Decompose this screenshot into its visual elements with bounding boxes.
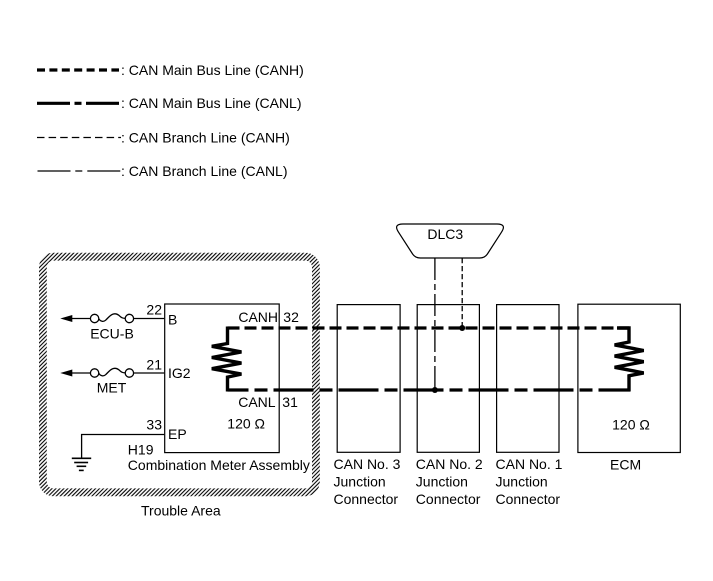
svg-text:Junction: Junction [334, 474, 386, 490]
junction node on CANL (dot) [432, 387, 438, 393]
svg-text:Connector: Connector [416, 491, 481, 507]
svg-text:: CAN Main Bus Line (CANL): : CAN Main Bus Line (CANL) [121, 95, 302, 111]
CANH main bus line [228, 326, 630, 329]
svg-text:B: B [168, 311, 177, 327]
svg-text:CAN No. 3: CAN No. 3 [334, 456, 401, 472]
svg-text:CAN No. 1: CAN No. 1 [496, 456, 563, 472]
svg-text:120 Ω: 120 Ω [612, 416, 650, 432]
svg-text:: CAN Main Bus Line (CANH): : CAN Main Bus Line (CANH) [121, 62, 304, 78]
arrow to MET [60, 370, 72, 377]
svg-text:H19: H19 [128, 442, 154, 458]
svg-text:DLC3: DLC3 [427, 226, 463, 242]
junction connector box CAN No.1 [497, 305, 559, 453]
combination meter assembly box [165, 304, 280, 453]
pin 22 wire row B [134, 318, 165, 320]
resistor 120ohm in ECM [615, 328, 644, 392]
DLC3 connector outline [397, 224, 504, 258]
svg-text:Connector: Connector [334, 491, 399, 507]
svg-text:ECM: ECM [610, 456, 641, 472]
svg-text:EP: EP [168, 426, 187, 442]
svg-text:33: 33 [146, 416, 162, 432]
CANL main bus line [228, 388, 631, 391]
svg-text:ECU-B: ECU-B [90, 326, 134, 342]
svg-text:: CAN Branch Line (CANL): : CAN Branch Line (CANL) [121, 163, 288, 179]
fuse MET squiggle [99, 368, 125, 376]
fuse ECU-B squiggle [99, 314, 125, 322]
CANH branch line from DLC3 [461, 258, 463, 328]
ground symbol [72, 458, 91, 470]
fuse ECU-B left circle [90, 314, 98, 322]
fuse MET left circle [90, 369, 98, 377]
svg-text:21: 21 [146, 356, 162, 372]
svg-text:: CAN Branch Line (CANH): : CAN Branch Line (CANH) [121, 129, 290, 145]
arrow to ECU-B [60, 315, 72, 322]
junction connector box CAN No.2 [417, 305, 479, 453]
legend sample: CAN Branch Line (CANL) thin long-short dash [38, 170, 122, 172]
fuse ECU-B right circle [125, 314, 133, 322]
svg-text:MET: MET [97, 380, 127, 396]
svg-text:Combination Meter Assembly: Combination Meter Assembly [128, 457, 310, 473]
svg-text:120 Ω: 120 Ω [227, 416, 265, 432]
svg-text:IG2: IG2 [168, 365, 191, 381]
legend sample: CAN Main Bus Line (CANL) thick dash-dot [37, 102, 120, 105]
legend sample: CAN Branch Line (CANH) thin dashed [37, 137, 121, 139]
fuse MET right circle [125, 369, 133, 377]
svg-text:32: 32 [283, 309, 299, 325]
svg-text:22: 22 [146, 302, 162, 318]
svg-text:Junction: Junction [416, 474, 468, 490]
svg-text:CAN No. 2: CAN No. 2 [416, 456, 483, 472]
svg-text:Connector: Connector [496, 491, 561, 507]
junction connector box CAN No.3 [337, 305, 400, 453]
junction node on CANH (dot) [459, 325, 465, 331]
svg-text:Junction: Junction [496, 474, 548, 490]
svg-text:CANH: CANH [238, 309, 278, 325]
pin 21 wire row IG2 [134, 372, 165, 374]
resistor 120ohm in combination meter [212, 327, 242, 392]
legend sample: CAN Main Bus Line (CANH) thick dashed [37, 68, 119, 71]
svg-text:Trouble Area: Trouble Area [141, 503, 221, 519]
pin 33 wire row EP [82, 435, 165, 459]
svg-text:CANL: CANL [238, 394, 276, 410]
svg-text:31: 31 [282, 394, 298, 410]
ECM box [578, 304, 680, 452]
trouble area hatched border [43, 257, 316, 493]
CANL branch line from DLC3 [434, 258, 436, 390]
